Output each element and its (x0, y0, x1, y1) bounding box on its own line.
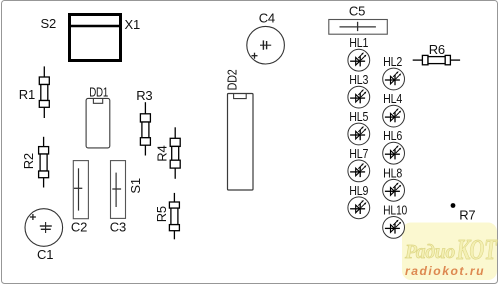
svg-text:R2: R2 (21, 153, 36, 169)
svg-text:HL10: HL10 (383, 202, 407, 217)
svg-text:КОТ: КОТ (456, 234, 498, 266)
svg-text:DD2: DD2 (225, 69, 240, 90)
svg-text:HL7: HL7 (349, 146, 368, 161)
svg-text:C1: C1 (37, 247, 53, 262)
svg-text:S1: S1 (128, 178, 143, 194)
svg-text:S2: S2 (41, 16, 57, 31)
svg-text:R4: R4 (154, 145, 169, 161)
svg-text:R5: R5 (154, 206, 169, 222)
svg-text:HL9: HL9 (349, 183, 368, 198)
svg-text:X1: X1 (125, 17, 141, 32)
svg-text:R7: R7 (459, 208, 475, 223)
svg-text:HL1: HL1 (349, 35, 368, 50)
svg-text:R1: R1 (19, 87, 35, 102)
svg-text:DD1: DD1 (89, 85, 108, 100)
svg-text:HL8: HL8 (383, 165, 402, 180)
svg-text:R6: R6 (429, 42, 445, 57)
svg-text:HL4: HL4 (383, 91, 402, 106)
svg-text:C5: C5 (349, 3, 365, 18)
svg-text:C4: C4 (259, 10, 275, 25)
svg-text:HL2: HL2 (383, 54, 402, 69)
svg-text:HL5: HL5 (349, 109, 368, 124)
svg-text:radiokot.ru: radiokot.ru (405, 264, 485, 278)
svg-text:HL6: HL6 (383, 128, 402, 143)
svg-text:C3: C3 (110, 220, 126, 235)
svg-text:HL3: HL3 (349, 72, 368, 87)
svg-text:R3: R3 (136, 88, 152, 103)
svg-text:C2: C2 (71, 220, 87, 235)
svg-text:Радио: Радио (404, 241, 455, 263)
